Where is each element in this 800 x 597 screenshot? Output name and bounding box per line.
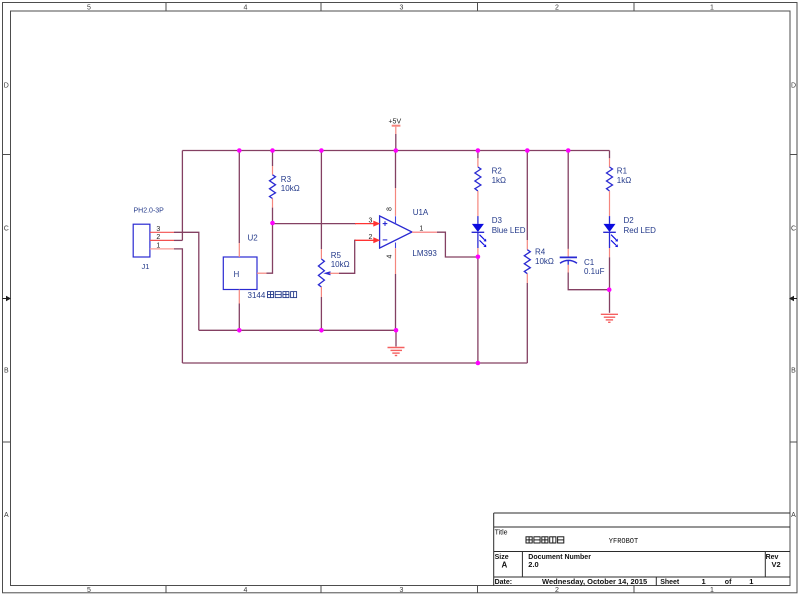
wire bottom rail <box>182 362 527 364</box>
wire gnd rail <box>199 329 396 331</box>
svg-text:2: 2 <box>555 5 559 12</box>
junction dots <box>237 148 612 365</box>
svg-text:A: A <box>791 512 796 519</box>
wire op-amp output to D3 cathode node <box>437 232 478 257</box>
svg-text:Title: Title <box>495 530 508 537</box>
svg-text:R2: R2 <box>492 167 503 176</box>
svg-text:B: B <box>791 368 796 375</box>
svg-text:10kΩ: 10kΩ <box>331 260 350 269</box>
svg-text:1kΩ: 1kΩ <box>492 176 506 185</box>
wire D3 cathode down to bottom rail <box>477 257 479 363</box>
svg-text:2: 2 <box>555 587 559 594</box>
svg-text:R1: R1 <box>617 167 628 176</box>
svg-text:1: 1 <box>710 5 714 12</box>
capacitor C1 <box>560 151 610 290</box>
TITLEBLOCK <box>494 513 790 586</box>
svg-text:3: 3 <box>400 587 404 594</box>
pin 1 of U1A (output) <box>412 231 437 233</box>
wire left vertical to J1 pin2 <box>181 151 183 241</box>
svg-text:A: A <box>4 512 9 519</box>
potentiometer R5 <box>318 151 339 331</box>
svg-text:Wednesday, October 14, 2015: Wednesday, October 14, 2015 <box>542 577 647 586</box>
svg-text:1: 1 <box>419 226 423 233</box>
svg-text:C: C <box>791 226 796 233</box>
pin 3 of J1 <box>150 231 174 233</box>
pin 8 of U1A (V+) <box>387 151 396 216</box>
svg-text:1kΩ: 1kΩ <box>617 176 631 185</box>
svg-text:D: D <box>4 83 9 90</box>
svg-text:H: H <box>234 270 240 279</box>
svg-text:2: 2 <box>369 234 373 241</box>
svg-text:5: 5 <box>87 587 91 594</box>
svg-text:1: 1 <box>702 577 706 586</box>
power +5V symbol <box>388 119 401 151</box>
wire J1 pin3 to gnd rail <box>174 232 199 330</box>
svg-text:2: 2 <box>156 234 160 241</box>
resistor R4 <box>524 151 530 364</box>
wire node A to op-amp pin3 <box>273 223 357 225</box>
svg-text:10kΩ: 10kΩ <box>281 184 300 193</box>
svg-text:C: C <box>4 226 9 233</box>
svg-text:J1: J1 <box>142 262 150 271</box>
LED D3 <box>472 216 487 257</box>
svg-text:YFROBOT: YFROBOT <box>609 538 638 546</box>
svg-text:D: D <box>791 83 796 90</box>
hall sensor U2 <box>223 151 272 331</box>
svg-text:PH2.0-3P: PH2.0-3P <box>134 208 165 215</box>
svg-text:1: 1 <box>749 577 753 586</box>
ground symbol (op-amp / rail) <box>388 330 405 355</box>
svg-text:Blue LED: Blue LED <box>492 226 526 235</box>
pin 2 of J1 <box>150 239 174 241</box>
svg-text:3: 3 <box>400 5 404 12</box>
svg-text:D3: D3 <box>492 216 503 225</box>
svg-text:8: 8 <box>387 207 394 211</box>
svg-text:4: 4 <box>387 254 394 258</box>
svg-text:1: 1 <box>710 587 714 594</box>
svg-text:A: A <box>502 561 508 570</box>
svg-text:5: 5 <box>87 5 91 12</box>
op-amp U1A LM393 <box>380 216 412 248</box>
svg-text:LM393: LM393 <box>412 249 437 258</box>
connector J1 <box>133 224 150 257</box>
label 3144 hall element <box>248 291 297 300</box>
LED D2 <box>603 216 618 257</box>
svg-text:D2: D2 <box>624 216 635 225</box>
svg-text:4: 4 <box>244 587 248 594</box>
svg-text:U1A: U1A <box>413 208 429 217</box>
pin 3 of U1A (non-inverting input) <box>355 221 380 227</box>
svg-text:2.0: 2.0 <box>528 560 538 569</box>
svg-text:1: 1 <box>156 243 160 250</box>
svg-text:of: of <box>725 579 732 586</box>
resistor R1 <box>607 151 613 217</box>
pin 2 of U1A (inverting input) <box>355 237 380 243</box>
wire J1 pin1 to bottom rail <box>174 249 182 363</box>
svg-text:3: 3 <box>156 226 160 233</box>
svg-text:3144: 3144 <box>248 291 266 300</box>
svg-text:0.1uF: 0.1uF <box>584 267 605 276</box>
wire D2 cathode to ground node <box>609 257 611 313</box>
wire +5V top bus <box>182 150 609 152</box>
svg-text:Sheet: Sheet <box>660 579 680 586</box>
svg-text:B: B <box>4 368 9 375</box>
svg-text:Date:: Date: <box>495 579 513 586</box>
svg-text:4: 4 <box>244 5 248 12</box>
svg-text:V2: V2 <box>772 560 781 569</box>
svg-text:R4: R4 <box>535 248 546 257</box>
pin 4 of U1A (GND) <box>387 248 396 330</box>
svg-text:R3: R3 <box>281 175 292 184</box>
svg-text:3: 3 <box>369 218 373 225</box>
svg-text:R5: R5 <box>331 251 342 260</box>
wire R5 wiper to op-amp pin2 <box>339 240 356 273</box>
resistor R2 <box>475 151 481 217</box>
svg-text:10kΩ: 10kΩ <box>535 257 554 266</box>
svg-text:C1: C1 <box>584 258 595 267</box>
svg-text:+5V: +5V <box>388 119 401 126</box>
pin 1 of J1 <box>150 248 174 250</box>
resistor R3 <box>270 151 276 223</box>
svg-text:U2: U2 <box>248 234 259 243</box>
svg-text:Red LED: Red LED <box>624 226 657 235</box>
ground symbol (right, C1/D2) <box>601 314 618 322</box>
title text (Hall sensor, CJK) <box>526 537 564 543</box>
wire J1 pin2 stub <box>174 239 182 241</box>
